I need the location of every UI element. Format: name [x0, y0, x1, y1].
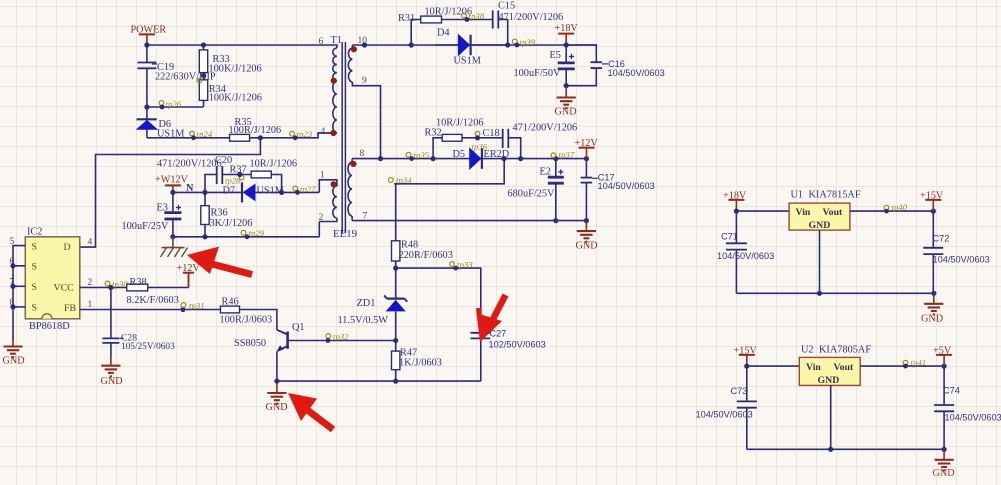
- power flag +18V (U1): [723, 191, 747, 214]
- svg-text:104/50V/0603: 104/50V/0603: [933, 255, 990, 265]
- svg-text:KIA7815AF: KIA7815AF: [809, 190, 861, 201]
- svg-text:R48: R48: [401, 240, 418, 251]
- svg-text:S: S: [32, 242, 37, 253]
- wire U2 Vin: [747, 365, 800, 367]
- test point tp40: [884, 202, 908, 214]
- svg-text:E3: E3: [157, 203, 168, 214]
- svg-text:S: S: [32, 262, 37, 273]
- junction N node flag: [170, 190, 175, 195]
- capacitor C28: [102, 288, 175, 357]
- T1 pin 4 label: [321, 127, 326, 137]
- svg-text:D: D: [64, 242, 71, 253]
- resistor R38: [127, 277, 189, 306]
- svg-text:tp37: tp37: [559, 150, 575, 160]
- capacitor C18: [483, 123, 578, 159]
- op-amp IC2 body BP8618D: [25, 227, 80, 333]
- svg-text:104/50V/0603: 104/50V/0603: [696, 410, 753, 420]
- svg-text:tp31: tp31: [189, 301, 205, 311]
- resistor R48: [392, 184, 453, 268]
- test point tp29: [241, 228, 265, 239]
- T1 pin 2 label: [319, 213, 324, 223]
- svg-text:GND: GND: [3, 356, 25, 367]
- T1 pin 8 label: [360, 149, 365, 159]
- zener diode ZD1: [338, 268, 408, 340]
- snubber C20 branch: [205, 175, 217, 193]
- wire D7 to T1 pin1: [319, 180, 323, 193]
- diode D7: [223, 182, 320, 202]
- svg-text:+15V: +15V: [734, 346, 758, 357]
- svg-text:R38: R38: [130, 277, 147, 288]
- svg-text:GND: GND: [576, 241, 598, 252]
- test point tp41: [903, 358, 926, 369]
- test point tp38: [462, 11, 485, 22]
- test point tp26: [159, 99, 182, 109]
- wire U2 Vout: [860, 364, 947, 369]
- wire R38 to +12V flag: [188, 273, 190, 288]
- test point tp28: [225, 172, 244, 186]
- test point tp33: [450, 260, 474, 271]
- svg-text:BP8618D: BP8618D: [29, 321, 70, 332]
- svg-text:tp29: tp29: [249, 228, 265, 238]
- wire drain node to IC2 D: [80, 138, 261, 247]
- regulator U1 KIA7815AF: [789, 190, 861, 231]
- test point tp32: [326, 332, 350, 343]
- IC2 pin labels S/D/VCC/FB: [32, 242, 77, 314]
- IC2 pin numbers: [10, 237, 93, 310]
- ground GND (C28): [101, 355, 123, 387]
- svg-text:EE19: EE19: [333, 228, 357, 240]
- svg-text:104/50V/0603: 104/50V/0603: [598, 181, 655, 191]
- svg-text:C74: C74: [943, 386, 960, 396]
- svg-text:C73: C73: [731, 386, 748, 396]
- wire U2 GND pin: [830, 385, 832, 449]
- svg-text:tp32: tp32: [333, 332, 349, 342]
- svg-text:6: 6: [319, 37, 324, 47]
- test point tp30: [105, 279, 128, 289]
- svg-text:S: S: [32, 282, 37, 293]
- wire R35 to T1 pin4: [250, 133, 336, 140]
- ground GND (U2): [933, 449, 955, 479]
- svg-text:E2: E2: [540, 167, 551, 178]
- test point tp39: [512, 37, 535, 47]
- power flag +18V: [555, 23, 579, 48]
- diode D4: [435, 28, 508, 67]
- wire D6-R35 clamp line: [147, 137, 230, 139]
- svg-text:VCC: VCC: [54, 283, 74, 294]
- wire R48 node to C27: [396, 268, 481, 333]
- T1 pin 7 label: [363, 212, 368, 222]
- svg-text:220R/F/0603: 220R/F/0603: [399, 250, 453, 261]
- svg-text:Vout: Vout: [823, 207, 844, 218]
- wire N line: [173, 190, 242, 195]
- T1 pin 10 label: [358, 36, 368, 46]
- resistor R47: [392, 341, 442, 382]
- svg-text:100uF/50V: 100uF/50V: [514, 68, 561, 79]
- svg-text:102/50V/0603: 102/50V/0603: [489, 340, 546, 350]
- svg-text:N: N: [186, 183, 194, 194]
- svg-text:4: 4: [88, 238, 93, 248]
- svg-text:R32: R32: [425, 128, 442, 139]
- svg-text:U2: U2: [801, 345, 814, 356]
- annotation arrow 2 (Q1 GND): [288, 393, 333, 430]
- svg-text:+18V: +18V: [555, 23, 579, 34]
- ground GND (U1): [921, 293, 943, 324]
- svg-text:+5V: +5V: [933, 346, 952, 357]
- transistor Q1 SS8050: [234, 322, 305, 381]
- wire rail to T1 pin2: [318, 222, 320, 237]
- svg-text:tp34: tp34: [396, 175, 412, 185]
- capacitor C73: [696, 366, 757, 449]
- capacitor C74: [934, 366, 1001, 449]
- ground earth (E3) slashed: [161, 237, 188, 257]
- T1 pin 1 label: [320, 171, 325, 181]
- svg-text:C18: C18: [483, 128, 500, 139]
- T1 pin 6 label: [319, 37, 324, 47]
- svg-text:E5: E5: [550, 50, 561, 61]
- resistor R46: [220, 297, 273, 326]
- capacitor C27: [471, 329, 546, 382]
- svg-text:tp27: tp27: [300, 184, 316, 194]
- svg-text:Q1: Q1: [292, 322, 305, 333]
- svg-text:R36: R36: [211, 208, 228, 219]
- resistor R37: [230, 159, 298, 193]
- wire U1 ground rail: [736, 291, 936, 296]
- T1 footprint label EE19: [333, 228, 357, 240]
- svg-text:C71: C71: [721, 232, 738, 242]
- power flag +12V (rail): [575, 138, 599, 159]
- power flag +15V (U1): [920, 191, 944, 212]
- wire POWER rail: [144, 42, 335, 47]
- svg-text:tp30: tp30: [112, 279, 128, 289]
- regulator U2 KIA7805AF: [799, 345, 871, 386]
- svg-text:680uF/25V: 680uF/25V: [508, 189, 555, 200]
- T1 secondary lower winding (8-7): [348, 159, 352, 221]
- svg-text:1K/J/0603: 1K/J/0603: [399, 358, 442, 369]
- svg-text:100R/J/0603: 100R/J/0603: [220, 315, 273, 326]
- T1 polarity dots: [330, 46, 357, 187]
- svg-text:tp35: tp35: [414, 150, 430, 160]
- svg-text:104/50V/0603: 104/50V/0603: [945, 413, 1001, 423]
- junction R33-R34: [201, 73, 206, 78]
- resistor R33: [199, 45, 261, 75]
- power flag +W12V: [155, 175, 189, 193]
- capacitor C16: [566, 45, 665, 86]
- annotation arrow 3 (C27): [477, 295, 506, 342]
- svg-text:8.2K/F/0603: 8.2K/F/0603: [127, 295, 179, 306]
- test point tp35: [406, 150, 430, 161]
- svg-text:8: 8: [360, 149, 365, 159]
- svg-text:D4: D4: [437, 28, 450, 39]
- svg-text:100K/J/1206: 100K/J/1206: [209, 64, 262, 75]
- svg-text:U1: U1: [791, 190, 804, 201]
- diode D5: [453, 148, 510, 169]
- svg-text:IC2: IC2: [27, 227, 42, 238]
- svg-text:tp28: tp28: [225, 176, 241, 186]
- svg-text:2: 2: [88, 278, 93, 288]
- svg-text:R37: R37: [230, 165, 247, 176]
- svg-text:tp41: tp41: [911, 358, 927, 368]
- svg-text:R46: R46: [222, 297, 239, 308]
- wire T1 pin8 rail: [352, 156, 589, 161]
- T1 primary upper winding (6-4): [318, 45, 337, 133]
- wire emitter ground rail: [274, 379, 481, 384]
- test point tp34: [388, 175, 412, 185]
- T1 primary lower winding (1-2): [319, 180, 337, 222]
- svg-text:9: 9: [362, 76, 367, 86]
- capacitor C15: [493, 1, 563, 46]
- svg-text:R31: R31: [398, 13, 415, 24]
- wire T1 pin7 rail: [352, 218, 589, 223]
- wire Q1 base line: [288, 338, 399, 343]
- wire U1 GND pin: [819, 230, 821, 293]
- power flag +5V (U2): [933, 346, 952, 367]
- capacitor C17: [581, 159, 655, 221]
- svg-text:10R/J/1206: 10R/J/1206: [250, 159, 298, 170]
- junction R37 bottom: [279, 190, 284, 195]
- transformer T1 core: [331, 35, 346, 233]
- svg-text:100K/J/1206: 100K/J/1206: [209, 93, 262, 104]
- wire bias bottom rail: [170, 234, 319, 239]
- svg-text:104/50V/0603: 104/50V/0603: [717, 251, 774, 261]
- svg-text:+15V: +15V: [920, 191, 944, 202]
- ground GND (Q1): [266, 383, 288, 414]
- wire C19-R34 bottom: [144, 104, 203, 109]
- svg-text:471/200V/1206: 471/200V/1206: [499, 12, 564, 23]
- capacitor E5 electrolytic: [514, 45, 575, 86]
- wire U2 ground rail: [747, 447, 947, 452]
- wire FB line: [80, 307, 221, 312]
- svg-text:FB: FB: [64, 303, 76, 314]
- svg-text:105/25V/0603: 105/25V/0603: [121, 342, 175, 352]
- wire T1 pin10 rail: [352, 42, 596, 47]
- test point tp37: [551, 150, 575, 160]
- svg-text:GND: GND: [101, 376, 123, 387]
- svg-text:+12V: +12V: [575, 138, 599, 149]
- ground GND (E2/C17): [576, 221, 598, 252]
- svg-text:S: S: [32, 303, 37, 314]
- capacitor E2 electrolytic: [508, 159, 564, 221]
- svg-text:KIA7805AF: KIA7805AF: [819, 345, 871, 356]
- svg-text:tp40: tp40: [892, 202, 908, 212]
- test point tp23: [290, 129, 313, 140]
- test point tp27: [293, 184, 316, 195]
- svg-text:tp38: tp38: [469, 11, 485, 21]
- svg-text:tp23: tp23: [297, 129, 313, 139]
- T1 secondary upper winding (10-9): [348, 45, 380, 159]
- svg-text:+W12V: +W12V: [155, 175, 189, 186]
- svg-text:Vin: Vin: [796, 207, 811, 218]
- junction R47 bottom: [393, 379, 398, 384]
- test point tp24: [190, 129, 213, 140]
- svg-text:GND: GND: [809, 220, 831, 231]
- svg-text:1: 1: [88, 300, 93, 310]
- capacitor C71: [717, 211, 774, 293]
- svg-text:GND: GND: [555, 107, 577, 118]
- svg-text:GND: GND: [266, 402, 288, 413]
- svg-text:US1M: US1M: [257, 186, 284, 197]
- svg-text:D5: D5: [453, 149, 466, 160]
- svg-text:11.5V/0.5W: 11.5V/0.5W: [338, 315, 389, 326]
- svg-text:GND: GND: [818, 375, 840, 386]
- power flag +12V (VCC): [177, 263, 201, 288]
- junction tp33 node: [393, 266, 398, 271]
- svg-text:tp39: tp39: [520, 37, 536, 47]
- test point tp25: [197, 78, 202, 83]
- svg-text:100uF/25V: 100uF/25V: [122, 221, 169, 232]
- svg-text:C15: C15: [498, 1, 515, 12]
- svg-text:ER2D: ER2D: [484, 149, 510, 160]
- power flag +15V (U2): [734, 346, 758, 369]
- svg-text:POWER: POWER: [131, 25, 167, 36]
- svg-text:471/200V/1206: 471/200V/1206: [513, 123, 578, 134]
- wire U1 Vin: [736, 210, 789, 212]
- resistor R36: [201, 192, 253, 236]
- svg-text:C72: C72: [933, 234, 950, 244]
- svg-text:4: 4: [321, 127, 326, 137]
- wire tp34 branch: [394, 159, 504, 184]
- annotation arrow 1 (E3 earth): [187, 247, 252, 275]
- svg-text:tp26: tp26: [166, 99, 182, 109]
- svg-text:Vout: Vout: [834, 362, 855, 373]
- capacitor C19: [137, 45, 216, 107]
- diode D6: [137, 107, 185, 140]
- svg-text:471/200V/1206: 471/200V/1206: [157, 158, 222, 169]
- svg-text:tp24: tp24: [197, 129, 213, 139]
- svg-text:+18V: +18V: [723, 191, 747, 202]
- svg-text:10R/J/1206: 10R/J/1206: [425, 7, 473, 18]
- wire R46 to Q1 collector: [240, 310, 277, 330]
- capacitor E3 electrolytic: [122, 192, 182, 236]
- svg-text:104/50V/0603: 104/50V/0603: [608, 68, 665, 78]
- capacitor C72: [923, 211, 989, 293]
- svg-text:D7: D7: [223, 186, 236, 197]
- svg-text:tp33: tp33: [457, 260, 473, 270]
- wire VCC line: [80, 285, 127, 290]
- svg-text:+12V: +12V: [177, 263, 201, 274]
- resistor R31 snubber branch: [398, 7, 493, 46]
- junction E5 bottom: [564, 83, 569, 88]
- test point tp36: [472, 131, 488, 151]
- svg-text:SS8050: SS8050: [234, 338, 266, 349]
- svg-text:3K/J/1206: 3K/J/1206: [210, 218, 253, 229]
- resistor R34: [199, 75, 262, 107]
- svg-text:US1M: US1M: [454, 56, 481, 67]
- node label N: [186, 183, 194, 194]
- wire IC2 pins 5-8 tie: [10, 246, 25, 341]
- resistor R35: [229, 117, 282, 141]
- svg-text:GND: GND: [921, 314, 943, 325]
- ground GND (E5/C16): [555, 87, 577, 118]
- svg-text:10R/J/1206: 10R/J/1206: [436, 118, 484, 129]
- capacitor C20: [157, 155, 251, 184]
- svg-text:100R/J/1206: 100R/J/1206: [229, 125, 282, 136]
- test point tp31: [181, 301, 205, 311]
- ground GND (IC2): [3, 336, 25, 367]
- svg-text:Vin: Vin: [806, 362, 821, 373]
- svg-text:GND: GND: [933, 468, 955, 479]
- snubber R32 branch: [425, 118, 503, 159]
- svg-text:ZD1: ZD1: [357, 298, 376, 309]
- T1 pin 9 label: [362, 76, 367, 86]
- wire U1 Vout: [850, 209, 936, 214]
- power flag POWER: [131, 25, 167, 46]
